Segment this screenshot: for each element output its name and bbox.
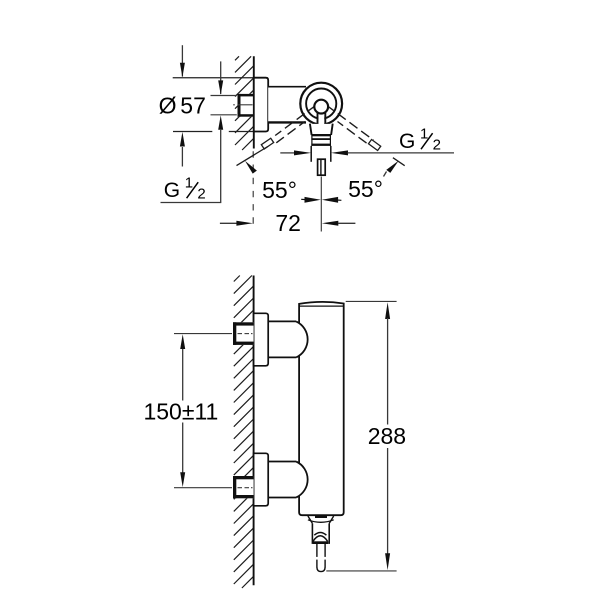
outlet plug detail (top view) — [318, 159, 326, 175]
lower union nut (side view) — [233, 476, 254, 498]
svg-text:G: G — [399, 130, 415, 153]
dimension Ø57: dimension line and arrows — [180, 45, 185, 166]
svg-text:1: 1 — [185, 174, 193, 191]
upper union centre line (side view) — [174, 333, 253, 335]
extension line flange bottom / Ø57 — [173, 131, 212, 133]
swivel range dashed line outer (left) — [275, 105, 316, 136]
svg-text:55°: 55° — [348, 176, 383, 202]
swivel range dashed line inner (left) — [276, 122, 305, 143]
swivel range dashed line inner (right) — [338, 122, 370, 146]
swivel range dashed line outer (right) — [326, 105, 373, 140]
lever handle (top view) — [318, 110, 326, 136]
dimension 72: line, arrows — [220, 221, 356, 226]
wall escutcheon flange (top view) — [254, 78, 268, 132]
wall hatching (top view) — [235, 56, 254, 150]
svg-text:2: 2 — [197, 186, 205, 203]
upper wall escutcheon (side view) — [254, 313, 269, 366]
upper union nut (side view) — [233, 322, 254, 345]
dimension 288: dimension line and arrows — [385, 302, 390, 570]
svg-text:72: 72 — [275, 210, 301, 236]
extension line flange top / Ø57 — [173, 77, 268, 79]
upper S-union cone — [268, 321, 307, 357]
outlet axis extension line — [320, 177, 322, 232]
wall face dashed extension line — [252, 151, 254, 224]
wall face line (side view) — [253, 276, 255, 586]
dimension 55° left: arrows — [301, 198, 306, 200]
union centre line (top view) — [233, 104, 257, 106]
svg-text:57: 57 — [180, 92, 206, 118]
wall hatching (side view) — [234, 276, 254, 589]
union nut through wall (top view) — [238, 94, 254, 117]
dimension G1/2 (wall union): extension lines — [211, 95, 237, 97]
svg-text:288: 288 — [368, 423, 406, 449]
handle knob circle — [314, 100, 328, 114]
dimension G1/2 (wall union): dimension line, arrows, leader — [161, 61, 224, 202]
outlet tube with break (side view) — [317, 544, 325, 572]
svg-text:G: G — [164, 179, 180, 202]
swivel end marker hollow dash (right) — [368, 140, 380, 151]
faucet body (top view) — [268, 88, 306, 122]
outlet aerator piece (side view) — [312, 523, 329, 544]
shower outlet pipe (top view) — [310, 146, 312, 162]
outlet bell (side view) — [308, 516, 334, 523]
dimension 150±11: dimension line and arrows — [180, 334, 185, 487]
lower S-union cone — [268, 462, 307, 498]
wall face line (top view) — [253, 56, 255, 148]
svg-text:150±11: 150±11 — [143, 398, 218, 424]
faucet body cylinder (side view) — [299, 302, 344, 515]
svg-text:2: 2 — [433, 137, 441, 154]
dimension 55° right: arrows — [337, 199, 342, 201]
body bottom drain mark — [315, 516, 327, 518]
handle outer circle (top view) — [300, 83, 342, 125]
svg-text:Ø: Ø — [159, 92, 177, 118]
swivel end tick line (left) — [237, 147, 268, 166]
svg-text:55°: 55° — [262, 177, 297, 203]
lower union centre line (side view) — [174, 487, 253, 489]
outlet neck below handle (top view) — [310, 124, 333, 136]
dimension 288: extension lines — [346, 300, 397, 302]
dimension G1/2 (shower outlet): line with arrows — [280, 150, 454, 155]
lower wall escutcheon (side view) — [254, 453, 269, 506]
shower outlet nut (top view) — [311, 134, 331, 146]
body cap seam line — [300, 305, 344, 307]
swivel end tick line (right) — [393, 158, 405, 166]
swivel end marker hollow dash (left) — [261, 138, 273, 149]
handle ring circle — [306, 89, 336, 119]
